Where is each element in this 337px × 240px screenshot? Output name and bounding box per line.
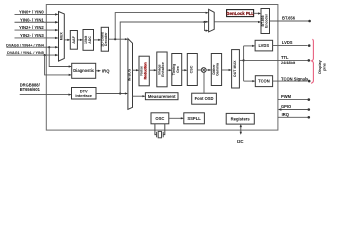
wire comb decoder to IN BUS: [109, 38, 128, 40]
wire TTL output: [244, 59, 308, 61]
svg-text:ADC: ADC: [88, 36, 92, 44]
wire dither gamma to out mux: [222, 69, 231, 71]
svg-text:Enhance: Enhance: [161, 62, 165, 77]
block Measurement: [145, 93, 178, 100]
wire TCON signals output: [273, 80, 308, 82]
bus IN BUS: [128, 39, 133, 110]
wire input YIN2-/YIN3 to mux: [15, 37, 59, 39]
block LVDS: [255, 40, 273, 51]
junction comb output: [114, 38, 116, 40]
svg-text:BT.656: BT.656: [282, 15, 296, 20]
block OSC: [151, 113, 169, 124]
mixer (OSD blend): [201, 68, 206, 73]
svg-text:LVDS: LVDS: [282, 40, 293, 45]
wire AAF to ADC: [77, 39, 82, 41]
wire input YIN0+/YIN0 to mux: [15, 13, 59, 15]
wire DVAG0 to diagnostic: [49, 47, 71, 66]
wire DRGB input to DTV interface: [20, 94, 71, 96]
block Dither Gamma: [211, 54, 221, 86]
wire DVAG1 to diagnostic: [45, 55, 71, 75]
svg-text:GPIO: GPIO: [281, 104, 292, 109]
block BT.656 Encoder: [261, 9, 270, 34]
wire top mux to encoder: [214, 21, 260, 23]
svg-text:Gamma: Gamma: [216, 63, 220, 76]
block DTV Interface: [72, 88, 97, 100]
wire IN BUS to noise reduction: [133, 69, 139, 71]
wire DTV to IN BUS: [96, 93, 127, 95]
svg-text:PWM: PWM: [281, 94, 292, 99]
svg-text:YIN0- / YIN1: YIN0- / YIN1: [20, 17, 44, 22]
input MUX: [59, 12, 65, 62]
crystal: [155, 124, 165, 138]
svg-text:YIN0+ / YIN0: YIN0+ / YIN0: [19, 10, 44, 15]
junction out mux fanout: [243, 59, 245, 61]
block 10bit ADC: [83, 30, 94, 51]
svg-text:pins: pins: [323, 63, 327, 71]
svg-text:Display: Display: [318, 59, 322, 73]
block CSC: [187, 54, 197, 86]
svg-text:BT656/601: BT656/601: [20, 87, 41, 92]
pin label DRGB888/BT656/601: [20, 82, 41, 91]
svg-text:YIN2+ / YIN2: YIN2+ / YIN2: [19, 25, 44, 30]
svg-text:Reduction: Reduction: [143, 62, 147, 79]
wire mixer to dither gamma: [206, 69, 210, 71]
junction DVAG1 tap: [44, 54, 46, 56]
wire IN BUS to measurement: [133, 95, 145, 97]
wire input DVAG1/YIN4-/YIN5 to mux: [6, 54, 58, 56]
svg-text:Font OSD: Font OSD: [195, 96, 214, 101]
svg-text:DVAG1 / YIN4- / YIN5: DVAG1 / YIN4- / YIN5: [7, 51, 44, 55]
svg-text:Measurement: Measurement: [148, 94, 176, 99]
block 2D Comb Decoder: [101, 27, 108, 51]
svg-text:IRQ: IRQ: [102, 68, 110, 73]
svg-text:IRQ: IRQ: [282, 112, 290, 117]
svg-text:Interface: Interface: [75, 93, 92, 98]
wire LVDS output: [273, 45, 308, 47]
svg-text:OUT MUX: OUT MUX: [233, 60, 237, 77]
svg-text:YIN2- / YIN3: YIN2- / YIN3: [20, 33, 44, 38]
svg-text:TCON: TCON: [258, 79, 270, 84]
svg-text:SSPLL: SSPLL: [187, 116, 201, 121]
wire PWM output: [278, 99, 308, 101]
wire ADC to comb: [94, 39, 101, 41]
svg-text:I2C: I2C: [237, 139, 244, 144]
svg-text:24/48bit: 24/48bit: [281, 61, 296, 65]
svg-text:LVDS: LVDS: [258, 43, 269, 48]
block Noise Reduction: [139, 56, 149, 86]
wire to LVDS: [244, 45, 255, 47]
svg-text:Encoder: Encoder: [264, 13, 268, 28]
svg-text:TTL: TTL: [281, 55, 289, 60]
wire input DVAG0/YIN4+/YIN4 to mux: [6, 46, 58, 48]
wire OSD riser to mixer: [203, 72, 205, 93]
wire I2C bidirectional: [240, 125, 242, 133]
wire BT.656 output: [270, 20, 309, 22]
wire out mux output column: [239, 59, 243, 61]
brace display pins: [311, 39, 313, 83]
svg-text:MUX: MUX: [60, 32, 64, 41]
chip boundary: [46, 5, 278, 131]
block Diagnostic: [72, 63, 96, 78]
wire genlock to encoder: [254, 12, 260, 14]
svg-text:IN BUS: IN BUS: [128, 68, 132, 81]
svg-text:CSC: CSC: [190, 65, 194, 73]
wire image enhance to timing gen: [167, 69, 171, 71]
svg-text:Registers: Registers: [231, 117, 251, 122]
svg-text:DVAG0 / YIN4+ / YIN4: DVAG0 / YIN4+ / YIN4: [6, 43, 45, 47]
wire riser comb to top mux: [115, 13, 207, 40]
block Font OSD: [192, 93, 217, 104]
block Registers: [226, 113, 254, 124]
junction top-mux third input branch: [203, 21, 205, 23]
block AAF: [70, 31, 77, 50]
svg-text:TCON Signals: TCON Signals: [281, 76, 309, 81]
wire GPIO output: [279, 109, 308, 111]
top mux (BT656 source select): [209, 9, 215, 32]
wire timing gen to CSC: [182, 69, 187, 71]
svg-text:Diagnostic: Diagnostic: [73, 68, 95, 73]
svg-text:AAF: AAF: [72, 35, 76, 43]
block OUT MUX: [232, 50, 240, 88]
wire OSC to SSPLL: [169, 117, 183, 119]
wire NR to image enhance: [149, 69, 156, 71]
wire diagnostic IRQ: [96, 70, 100, 72]
block SSPLL: [184, 113, 205, 124]
block Image Enhance: [157, 52, 167, 87]
junction DTV output: [119, 92, 121, 94]
block TCON: [255, 76, 272, 87]
wire input YIN0-/YIN1 to mux: [15, 21, 59, 23]
svg-text:Gen: Gen: [176, 66, 180, 73]
svg-text:GenLock PLL: GenLock PLL: [226, 11, 254, 16]
wire input YIN2+/YIN2 to mux: [15, 29, 59, 31]
block Timing Gen: [172, 54, 182, 86]
wire mux to AAF: [64, 39, 69, 41]
svg-text:Decoder: Decoder: [104, 32, 108, 46]
wire branch to top mux input 3: [205, 22, 208, 31]
svg-text:OSC: OSC: [155, 116, 164, 121]
block GenLock PLL: [227, 10, 254, 17]
wire IRQ output: [278, 116, 308, 118]
wire riser DTV to top mux: [120, 22, 207, 94]
wire CSC to mixer: [197, 69, 201, 71]
wire to TCON: [244, 80, 255, 82]
junction DVAG0 tap: [48, 46, 50, 48]
